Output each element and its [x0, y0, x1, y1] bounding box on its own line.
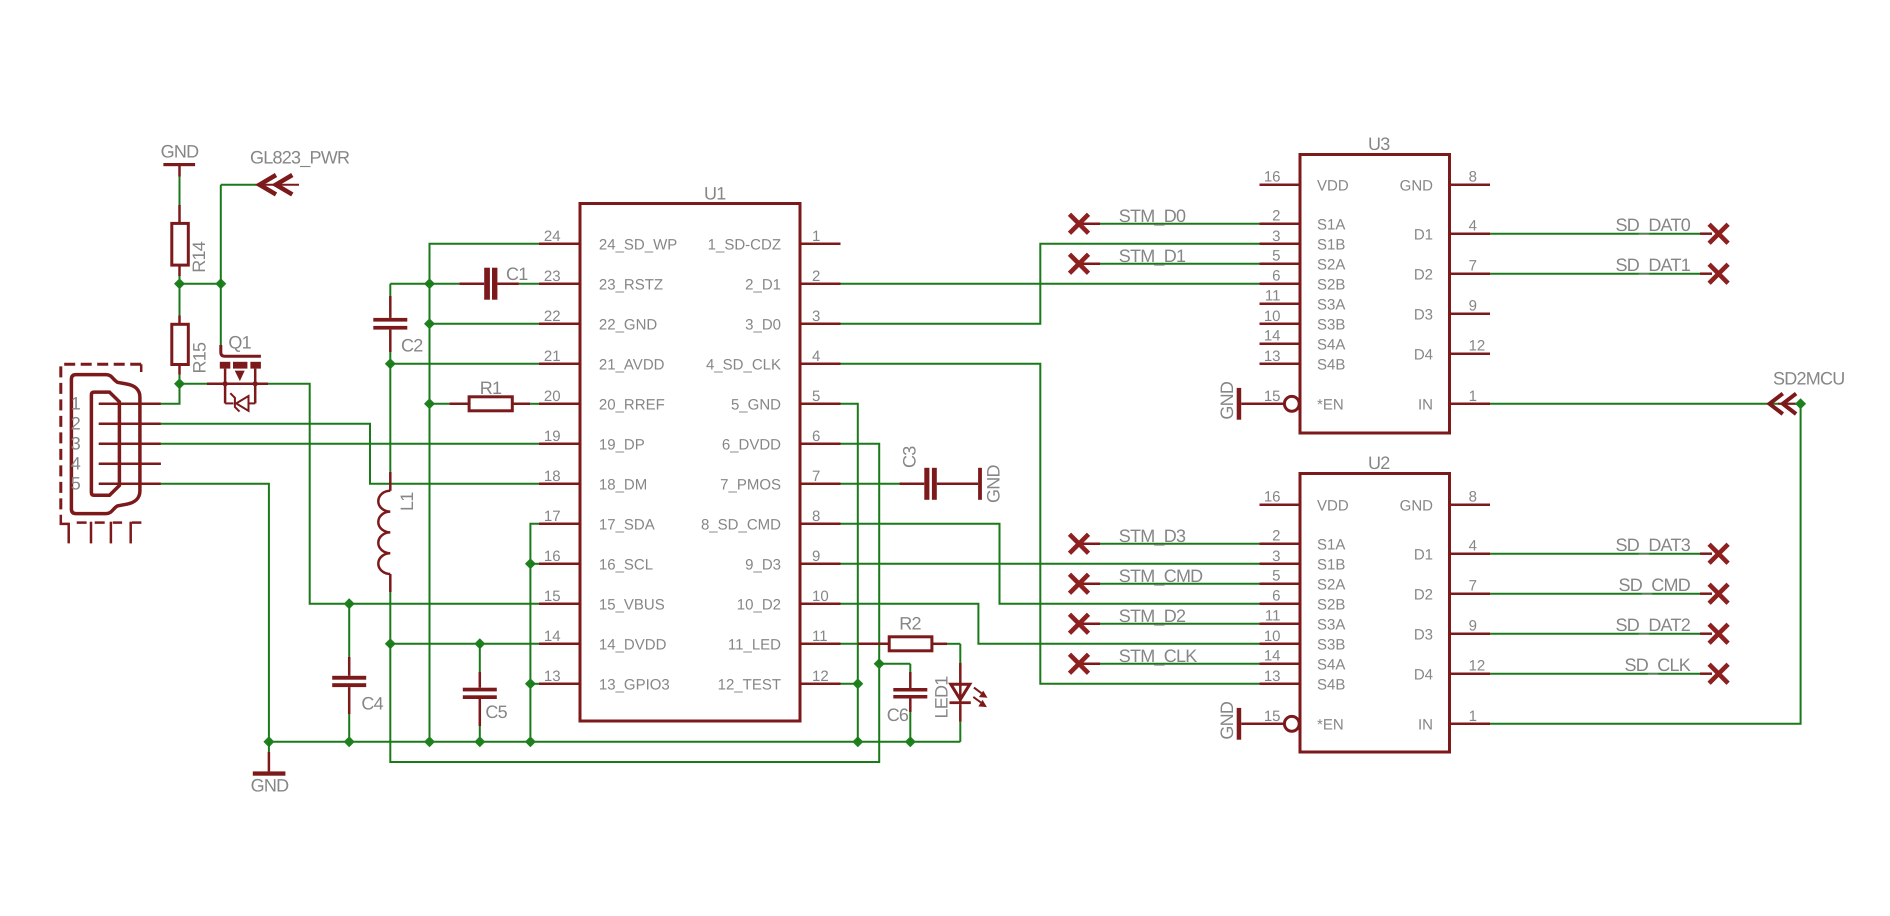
wire LED1 to rail corner: [959, 722, 961, 742]
connector J1 pin 4: [99, 463, 161, 466]
U3 pin 13 (S4B): [1260, 348, 1346, 374]
svg-text:16: 16: [544, 548, 561, 565]
U1 pin 12 (12_TEST): [718, 668, 841, 694]
svg-text:17_SDA: 17_SDA: [599, 517, 655, 534]
svg-text:IN: IN: [1418, 397, 1433, 414]
svg-text:L1: L1: [397, 492, 417, 511]
resistor R14: [172, 205, 209, 276]
U3 pin 10 (S3B): [1260, 308, 1346, 334]
svg-text:2: 2: [1272, 208, 1280, 225]
svg-text:21: 21: [544, 348, 561, 365]
svg-text:D4: D4: [1414, 347, 1433, 364]
wire USB pin1 to R15/Q1 junction (VBUS): [161, 384, 180, 404]
svg-text:9: 9: [1469, 298, 1477, 315]
U3 pin 15 (*EN) with bubble: [1260, 388, 1344, 414]
connector J1 pin 5: [99, 483, 161, 486]
connector J1 mini-USB shell: [71, 375, 139, 514]
connector J1 pin 2: [99, 423, 161, 426]
wire GND to R14: [179, 177, 181, 206]
svg-text:SD_CLK: SD_CLK: [1624, 655, 1690, 675]
inductor L1: [378, 472, 417, 592]
svg-text:SD_DAT2: SD_DAT2: [1616, 615, 1691, 635]
capacitor C6: [879, 664, 927, 742]
svg-text:3: 3: [1272, 548, 1280, 565]
wire U1 pin10 D2 to U2 S3B: [841, 604, 1260, 644]
resistor R1: [430, 378, 540, 411]
IC U3 body: [1300, 134, 1450, 433]
svg-text:21_AVDD: 21_AVDD: [599, 357, 665, 374]
svg-text:6: 6: [812, 428, 820, 445]
label SD2MCU with arrow: [1770, 369, 1845, 415]
U1 pin 4 (4_SD_CLK): [706, 348, 841, 374]
svg-text:4_SD_CLK: 4_SD_CLK: [706, 357, 781, 374]
ground GND (top left): [161, 142, 200, 177]
U1 pin 22 (22_GND): [539, 308, 657, 334]
svg-text:10_D2: 10_D2: [737, 597, 781, 614]
ground GND (bottom rail): [251, 742, 290, 796]
node AVDD/C2 junction: [385, 358, 396, 369]
IC U1 body: [580, 184, 800, 722]
svg-text:2: 2: [812, 268, 820, 285]
no-connect X at STM_CMD: [1070, 574, 1089, 593]
wire U1 pin3 D0 to U3 S1B: [841, 244, 1260, 324]
svg-text:15_VBUS: 15_VBUS: [599, 597, 665, 614]
wire U1 pin8 SD_CMD to U2 S2B: [841, 524, 1260, 604]
svg-text:S2A: S2A: [1317, 257, 1345, 274]
ground GND (at C3): [978, 465, 1003, 504]
net SD_DAT2 wire: [1490, 615, 1712, 635]
svg-text:3: 3: [812, 308, 820, 325]
U3 pin 9 (D3): [1414, 298, 1490, 324]
node R15/Q1/VBUS junction: [174, 378, 185, 389]
U1 pin 2 (2_D1): [745, 268, 840, 294]
svg-text:C6: C6: [887, 705, 909, 725]
wire DVDD down and across lower rail to C6 column: [390, 644, 879, 762]
U1 pin 23 (23_RSTZ): [539, 268, 663, 294]
U1 pin 21 (21_AVDD): [539, 348, 665, 374]
svg-text:13: 13: [1264, 668, 1281, 685]
wire C2 junction down to L1: [389, 364, 391, 472]
wire USB pin3 to U1 pin 19 (DP): [161, 443, 539, 445]
svg-text:10: 10: [812, 588, 829, 605]
svg-text:19_DP: 19_DP: [599, 437, 645, 454]
U2 pin 7 (D2): [1414, 578, 1490, 604]
svg-text:S3B: S3B: [1317, 637, 1345, 654]
svg-text:S2B: S2B: [1317, 277, 1345, 294]
wire USB pin2 to U1 pin 18 (DM): [161, 424, 539, 484]
svg-text:3: 3: [1272, 228, 1280, 245]
U1 pin 16 (16_SCL): [539, 548, 653, 574]
power label GL823_PWR with arrow: [221, 148, 350, 195]
svg-text:C2: C2: [401, 336, 423, 356]
no-connect X at SD_DAT2: [1709, 624, 1728, 643]
svg-text:S2A: S2A: [1317, 577, 1345, 594]
svg-text:STM_D3: STM_D3: [1119, 526, 1186, 546]
U1 pin 3 (3_D0): [745, 308, 840, 334]
svg-text:20: 20: [544, 388, 561, 405]
svg-text:U2: U2: [1368, 453, 1390, 473]
svg-text:S1B: S1B: [1317, 237, 1345, 254]
svg-text:12_TEST: 12_TEST: [718, 677, 781, 694]
net SD_DAT0 wire: [1490, 215, 1712, 235]
svg-text:5: 5: [1272, 568, 1280, 585]
svg-text:6: 6: [1272, 268, 1280, 285]
svg-text:SD_CMD: SD_CMD: [1618, 575, 1690, 595]
U3 pin 6 (S2B): [1260, 268, 1346, 294]
net STM_D0 wire: [1079, 206, 1260, 226]
svg-text:16_SCL: 16_SCL: [599, 557, 653, 574]
svg-text:7: 7: [812, 468, 820, 485]
node rail/C4 junction: [344, 736, 355, 747]
wire GND net vertical (SD_WP/GND/RREF): [430, 244, 540, 742]
svg-text:GND: GND: [1217, 701, 1237, 740]
svg-text:R2: R2: [899, 614, 921, 634]
U2 pin 15 (*EN) with bubble: [1260, 708, 1344, 734]
svg-text:STM_CMD: STM_CMD: [1119, 566, 1203, 586]
svg-text:15: 15: [1264, 388, 1281, 405]
net SD_DAT1 wire: [1490, 255, 1712, 275]
capacitor C3: [841, 446, 979, 500]
connector J1 pin 3: [99, 443, 161, 446]
svg-text:5_GND: 5_GND: [731, 397, 781, 414]
U2 pin 16 (VDD): [1260, 489, 1349, 515]
svg-text:S4A: S4A: [1317, 657, 1345, 674]
svg-text:GL823_PWR: GL823_PWR: [250, 148, 350, 168]
svg-text:STM_D2: STM_D2: [1119, 606, 1186, 626]
svg-text:8: 8: [1469, 169, 1477, 186]
svg-text:GND: GND: [251, 776, 290, 796]
connector J1 pin 1: [99, 403, 161, 406]
svg-text:STM_CLK: STM_CLK: [1119, 646, 1198, 666]
svg-text:S4A: S4A: [1317, 337, 1345, 354]
svg-text:S3B: S3B: [1317, 317, 1345, 334]
svg-text:11_LED: 11_LED: [728, 637, 781, 654]
svg-text:14: 14: [1264, 328, 1281, 345]
svg-text:GND: GND: [1400, 498, 1434, 515]
svg-text:8: 8: [812, 508, 820, 525]
wire junction to U1 pin 13: [530, 683, 539, 685]
svg-text:4: 4: [1469, 218, 1477, 235]
wire DVDD column up to U1 pin 6: [841, 444, 880, 664]
U2 pin 10 (S3B): [1260, 628, 1346, 654]
wire SDA/SCL/GPIO3 net vertical: [530, 524, 539, 742]
svg-text:9: 9: [812, 548, 820, 565]
svg-text:1_SD-CDZ: 1_SD-CDZ: [708, 237, 781, 254]
net STM_CMD wire: [1079, 566, 1260, 586]
svg-text:18_DM: 18_DM: [599, 477, 647, 494]
svg-text:18: 18: [544, 468, 561, 485]
svg-text:R1: R1: [480, 378, 502, 398]
svg-text:20_RREF: 20_RREF: [599, 397, 665, 414]
svg-text:C3: C3: [900, 446, 920, 468]
U3 pin 1 (IN): [1418, 388, 1490, 414]
wire U1 pin12 TEST to GND net: [841, 683, 858, 685]
U2 pin 8 (GND): [1400, 489, 1490, 515]
U1 pin 9 (9_D3): [745, 548, 840, 574]
svg-text:7_PMOS: 7_PMOS: [720, 477, 781, 494]
U3 pin 3 (S1B): [1260, 228, 1346, 254]
U1 pin 17 (17_SDA): [539, 508, 655, 534]
U1 pin 13 (13_GPIO3): [539, 668, 670, 694]
wire Q1 drain to VBUS corner: [268, 384, 349, 604]
no-connect X at SD_CMD: [1709, 584, 1728, 603]
U1 pin 19 (19_DP): [539, 428, 645, 454]
node rail/C5 junction: [474, 736, 485, 747]
no-connect X at STM_D2: [1070, 614, 1089, 633]
node rail/C6 junction: [905, 736, 916, 747]
svg-text:7: 7: [1469, 578, 1477, 595]
U3 pin 4 (D1): [1414, 218, 1490, 244]
net SD_CMD wire: [1490, 575, 1712, 595]
svg-text:C4: C4: [361, 694, 383, 714]
U2 pin 6 (S2B): [1260, 588, 1346, 614]
U2 pin 2 (S1A): [1260, 528, 1346, 554]
node rail/GNDnet junction: [424, 736, 435, 747]
U2 pin 13 (S4B): [1260, 668, 1346, 694]
svg-text:19: 19: [544, 428, 561, 445]
U2 pin 12 (D4): [1414, 658, 1490, 684]
no-connect X at SD_DAT0: [1709, 224, 1728, 243]
svg-text:12: 12: [812, 668, 829, 685]
svg-text:IN: IN: [1418, 717, 1433, 734]
U1 pin 7 (7_PMOS): [720, 468, 840, 494]
svg-text:16: 16: [1264, 489, 1281, 506]
no-connect X at STM_D1: [1070, 254, 1089, 273]
wire L1 to DVDD junction: [389, 592, 391, 644]
svg-text:22: 22: [544, 308, 561, 325]
svg-text:2: 2: [1272, 528, 1280, 545]
node SCL junction: [525, 558, 536, 569]
net STM_D3 wire: [1079, 526, 1260, 546]
wire U1 pin9 D3 to U2 S1B: [841, 563, 1260, 565]
connector J1 mini-USB dashed outline: [61, 364, 142, 543]
U3 pin 12 (D4): [1414, 338, 1490, 364]
no-connect X at SD_DAT1: [1709, 264, 1728, 283]
svg-text:S4B: S4B: [1317, 677, 1345, 694]
node R14/R15 junction: [174, 278, 185, 289]
svg-text:13: 13: [544, 668, 561, 685]
no-connect X at STM_D0: [1070, 214, 1089, 233]
wire R14 to junction: [179, 276, 181, 284]
no-connect X at SD_DAT3: [1709, 544, 1728, 563]
wire USB pin5 to GND rail: [161, 484, 269, 742]
svg-text:11: 11: [1265, 288, 1281, 305]
svg-text:STM_D0: STM_D0: [1119, 206, 1186, 226]
wire junction to Q1 source: [180, 383, 208, 385]
ground GND (at U3 *EN): [1217, 381, 1260, 420]
svg-text:SD2MCU: SD2MCU: [1773, 369, 1845, 389]
wire GND rail (bottom): [269, 741, 960, 743]
U1 pin 14 (14_DVDD): [539, 628, 667, 654]
svg-text:D4: D4: [1414, 667, 1433, 684]
svg-text:1: 1: [812, 228, 820, 245]
wire junction to U1 pin 22: [430, 323, 540, 325]
capacitor C2: [373, 284, 429, 364]
svg-text:1: 1: [1469, 708, 1477, 725]
svg-text:SD_DAT0: SD_DAT0: [1616, 215, 1691, 235]
U3 pin 14 (S4A): [1260, 328, 1346, 354]
wire U1 pin4 SD_CLK to U2 S4B: [841, 364, 1260, 684]
net STM_D2 wire: [1079, 606, 1260, 626]
svg-text:8: 8: [1469, 489, 1477, 506]
node GPIO3 junction: [525, 678, 536, 689]
wire junction to GL823_PWR column: [180, 283, 221, 285]
node rail/USB5 junction: [263, 736, 274, 747]
svg-text:1: 1: [1469, 388, 1477, 405]
svg-text:23_RSTZ: 23_RSTZ: [599, 277, 663, 294]
svg-text:3: 3: [71, 433, 81, 453]
svg-text:U3: U3: [1368, 134, 1390, 154]
svg-text:Q1: Q1: [228, 333, 251, 353]
U3 pin 2 (S1A): [1260, 208, 1346, 234]
svg-text:12: 12: [1469, 338, 1486, 355]
svg-text:S1A: S1A: [1317, 217, 1345, 234]
wire junction to U1 pin 16: [530, 563, 539, 565]
node GND/R1 junction: [424, 398, 435, 409]
node GND/pin22 junction: [424, 318, 435, 329]
net SD2MCU wire U3 IN to U2 IN: [1490, 404, 1801, 724]
svg-text:9: 9: [1469, 618, 1477, 635]
U1 pin 20 (20_RREF): [539, 388, 665, 414]
net SD_CLK wire: [1490, 655, 1712, 675]
svg-text:STM_D1: STM_D1: [1119, 246, 1186, 266]
U1 pin 11 (11_LED): [728, 628, 841, 654]
svg-text:GND: GND: [161, 142, 200, 162]
svg-text:24: 24: [544, 228, 561, 245]
U3 pin 8 (GND): [1400, 169, 1490, 195]
svg-text:S4B: S4B: [1317, 357, 1345, 374]
svg-text:14: 14: [544, 628, 561, 645]
svg-text:GND: GND: [1217, 381, 1237, 420]
capacitor C1: [430, 264, 540, 300]
svg-text:6: 6: [1272, 588, 1280, 605]
svg-text:S1B: S1B: [1317, 557, 1345, 574]
U2 pin 4 (D1): [1414, 538, 1490, 564]
node rail/GPIO3net junction: [525, 736, 536, 747]
svg-text:4: 4: [71, 453, 81, 473]
svg-text:C1: C1: [506, 264, 528, 284]
svg-text:7: 7: [1469, 258, 1477, 275]
net STM_CLK wire: [1079, 646, 1260, 666]
U1 pin 15 (15_VBUS): [539, 588, 665, 614]
svg-text:13: 13: [1264, 348, 1281, 365]
wire VBUS junction to U1 pin 15: [349, 603, 539, 605]
node DVDD/pin14 junction: [385, 638, 396, 649]
svg-text:5: 5: [1272, 248, 1280, 265]
U1 pin 24 (24_SD_WP): [539, 228, 677, 254]
svg-text:VDD: VDD: [1317, 498, 1349, 515]
svg-text:4: 4: [1469, 538, 1477, 555]
no-connect X at SD_CLK: [1709, 664, 1728, 683]
svg-text:C5: C5: [485, 702, 507, 722]
U1 pin 5 (5_GND): [731, 388, 841, 414]
ground GND (at U2 *EN): [1217, 701, 1260, 740]
resistor R15: [172, 284, 210, 384]
wire U1 pin2 D1 to U3 S2B: [841, 283, 1260, 285]
svg-text:D1: D1: [1414, 547, 1433, 564]
capacitor C5: [463, 644, 508, 742]
svg-text:22_GND: 22_GND: [599, 317, 658, 334]
svg-text:GND: GND: [1400, 178, 1434, 195]
svg-text:S2B: S2B: [1317, 597, 1345, 614]
node rail/pin5GND junction: [852, 736, 863, 747]
svg-text:S1A: S1A: [1317, 537, 1345, 554]
no-connect X at STM_D3: [1070, 534, 1089, 553]
svg-text:D1: D1: [1414, 227, 1433, 244]
svg-text:VDD: VDD: [1317, 178, 1349, 195]
svg-text:13_GPIO3: 13_GPIO3: [599, 677, 670, 694]
svg-text:5: 5: [812, 388, 820, 405]
svg-text:*EN: *EN: [1317, 717, 1344, 734]
svg-text:10: 10: [1264, 308, 1281, 325]
resistor R2: [841, 614, 961, 651]
U1 pin 8 (8_SD_CMD): [701, 508, 841, 534]
U1 pin 10 (10_D2): [737, 588, 841, 614]
svg-text:11: 11: [812, 628, 828, 645]
wire AVDD junction to U1 pin 21: [390, 363, 539, 365]
node VBUS/C4 junction: [344, 598, 355, 609]
node DVDD/C5 junction: [474, 638, 485, 649]
U3 pin 5 (S2A): [1260, 248, 1346, 274]
svg-text:14: 14: [1264, 648, 1281, 665]
svg-text:24_SD_WP: 24_SD_WP: [599, 237, 677, 254]
U1 pin 1 (1_SD-CDZ): [708, 228, 841, 254]
svg-text:15: 15: [1264, 708, 1281, 725]
svg-text:23: 23: [544, 268, 561, 285]
node TEST/GND junction: [852, 678, 863, 689]
svg-text:3_D0: 3_D0: [745, 317, 781, 334]
transistor Q1 (P-MOSFET): [207, 333, 268, 412]
U2 pin 11 (S3A): [1260, 608, 1346, 634]
svg-text:16: 16: [1264, 169, 1281, 186]
svg-text:D2: D2: [1414, 587, 1433, 604]
U3 pin 11 (S3A): [1260, 288, 1346, 314]
U2 pin 1 (IN): [1418, 708, 1490, 734]
svg-text:LED1: LED1: [932, 676, 952, 719]
node GND/C1 junction: [424, 278, 435, 289]
svg-text:U1: U1: [704, 184, 726, 204]
svg-text:D3: D3: [1414, 627, 1433, 644]
node SD2MCU junction: [1795, 398, 1806, 409]
LED LED1: [932, 644, 988, 722]
svg-text:11: 11: [1265, 608, 1281, 625]
U2 pin 14 (S4A): [1260, 648, 1346, 674]
svg-text:*EN: *EN: [1317, 397, 1344, 414]
svg-text:R15: R15: [190, 342, 210, 374]
svg-text:10: 10: [1264, 628, 1281, 645]
net SD_DAT3 wire: [1490, 535, 1712, 555]
svg-text:5: 5: [71, 473, 81, 493]
U3 pin 7 (D2): [1414, 258, 1490, 284]
svg-text:SD_DAT1: SD_DAT1: [1616, 255, 1691, 275]
svg-text:S3A: S3A: [1317, 617, 1345, 634]
svg-text:D2: D2: [1414, 267, 1433, 284]
no-connect X at STM_CLK: [1070, 654, 1089, 673]
U1 pin 6 (6_DVDD): [722, 428, 841, 454]
svg-text:2: 2: [71, 413, 81, 433]
svg-text:R14: R14: [189, 241, 209, 273]
svg-text:6_DVDD: 6_DVDD: [722, 437, 781, 454]
wire GL823_PWR vertical to Q1 gate: [220, 185, 222, 349]
wire DVDD junction to U1 pin 14: [390, 643, 539, 645]
U2 pin 5 (S2A): [1260, 568, 1346, 594]
U1 pin 18 (18_DM): [539, 468, 647, 494]
IC U2 body: [1300, 453, 1450, 752]
svg-text:17: 17: [544, 508, 561, 525]
svg-text:9_D3: 9_D3: [745, 557, 781, 574]
svg-text:12: 12: [1469, 658, 1486, 675]
node GL823_PWR column junction: [215, 278, 226, 289]
